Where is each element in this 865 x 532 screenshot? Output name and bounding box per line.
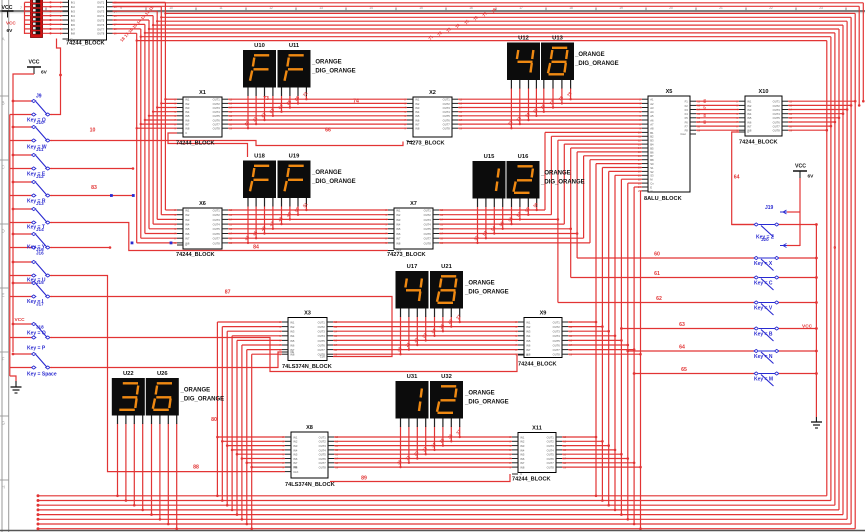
svg-text:IN6: IN6 [290, 343, 295, 347]
switch J10 left [10, 125, 52, 142]
svg-text:6V: 6V [7, 28, 14, 34]
svg-text:10: 10 [90, 128, 96, 134]
power VCC top-left 6V [2, 5, 17, 34]
svg-text:OUT8: OUT8 [773, 129, 781, 133]
svg-text:J16: J16 [36, 251, 44, 256]
svg-text:IN2: IN2 [520, 440, 525, 444]
label 62 [656, 296, 662, 302]
switch key C [571, 276, 818, 290]
svg-text:U22: U22 [123, 371, 134, 377]
power VCC left 6V [13, 60, 48, 102]
svg-text:C: C [526, 353, 528, 357]
svg-text:IN7: IN7 [185, 123, 190, 127]
svg-text:OE: OE [293, 465, 297, 469]
wire X9 outputs join risers [568, 321, 642, 356]
svg-text:OUT8: OUT8 [547, 466, 555, 470]
svg-text:OUT7: OUT7 [424, 237, 432, 241]
svg-text:IN7: IN7 [747, 125, 752, 129]
switch key X [577, 256, 818, 270]
svg-text:IN2: IN2 [185, 102, 190, 106]
svg-text:CLK: CLK [415, 140, 420, 144]
svg-text:S0: S0 [650, 162, 654, 166]
svg-text:IN1: IN1 [290, 320, 295, 324]
svg-text:H: H [2, 485, 5, 490]
ground right [811, 417, 822, 428]
svg-text:66: 66 [325, 128, 331, 134]
svg-text:IN1: IN1 [747, 100, 752, 104]
labels net numbers top middle [427, 7, 497, 41]
display U15 seven-segment [473, 154, 506, 207]
svg-text:B: B [2, 101, 5, 106]
svg-text:OUT2: OUT2 [318, 325, 326, 329]
svg-text:OUT3: OUT3 [318, 330, 326, 334]
svg-text:A8: A8 [650, 127, 654, 131]
svg-text:OUT8: OUT8 [213, 127, 221, 131]
svg-text:_DIG_ORANGE: _DIG_ORANGE [180, 397, 225, 403]
svg-text:A3: A3 [650, 106, 654, 110]
svg-text:IN3: IN3 [526, 330, 531, 334]
svg-text:0: 0 [834, 245, 837, 251]
display U32 seven-segment [430, 374, 463, 427]
buffer IC X11 74244_BLOCK [509, 425, 566, 482]
svg-text:OUT7: OUT7 [773, 125, 781, 129]
label VCC net right [802, 324, 813, 330]
wire bundle into X6 inputs [131, 210, 177, 244]
label 89 [361, 476, 367, 482]
display U31 seven-segment [396, 374, 429, 427]
svg-text:U12: U12 [518, 35, 529, 41]
svg-text:OUT8: OUT8 [443, 127, 451, 131]
svg-text:Cout: Cout [680, 132, 686, 136]
svg-text:X5: X5 [666, 89, 673, 95]
svg-text:A2: A2 [650, 102, 654, 106]
svg-text:OUT8: OUT8 [97, 32, 105, 36]
label Key = U [27, 278, 46, 286]
svg-text:88: 88 [193, 465, 199, 471]
svg-text:IN5: IN5 [747, 116, 752, 120]
svg-text:OUT8: OUT8 [213, 241, 221, 245]
svg-text:IN4: IN4 [415, 110, 420, 114]
wire key O route [51, 338, 517, 372]
svg-text:J12: J12 [36, 174, 44, 179]
labels net numbers on U10 U11 drops [243, 90, 309, 126]
svg-text:U17: U17 [407, 264, 418, 270]
wire bus X5 to X10 [696, 101, 739, 130]
svg-text:Key = X: Key = X [754, 261, 773, 267]
label 83 [91, 185, 97, 191]
svg-text:IN4: IN4 [747, 112, 752, 116]
label Key = V [754, 306, 773, 312]
switch J14 left [10, 232, 52, 249]
svg-text:OUT7: OUT7 [97, 27, 105, 31]
display U17 seven-segment [396, 264, 429, 317]
svg-text:IN6: IN6 [526, 343, 531, 347]
svg-text:_DIG_ORANGE: _DIG_ORANGE [540, 180, 585, 186]
svg-text:B6: B6 [650, 150, 654, 154]
svg-text:OUT5: OUT5 [97, 18, 105, 22]
svg-text:U21: U21 [441, 264, 452, 270]
svg-text:62: 62 [656, 296, 662, 302]
svg-text:IN5: IN5 [396, 227, 401, 231]
svg-text:IN4: IN4 [520, 448, 525, 452]
svg-text:VCC: VCC [29, 60, 40, 66]
svg-text:OUT2: OUT2 [547, 440, 555, 444]
display U22 seven-segment [112, 371, 145, 424]
svg-text:F3: F3 [685, 108, 689, 112]
svg-text:J10: J10 [36, 120, 44, 125]
svg-text:OUT3: OUT3 [213, 218, 221, 222]
switch key V [558, 301, 818, 315]
svg-text:IN3: IN3 [747, 108, 752, 112]
svg-text:E: E [2, 293, 5, 298]
svg-text:X3: X3 [304, 310, 311, 316]
wire bus X8 to X11 with U31 U32 segment drops [334, 427, 512, 469]
svg-text:OUT7: OUT7 [443, 123, 451, 127]
label 73 [263, 96, 269, 102]
svg-text:U11: U11 [289, 43, 300, 49]
label Key = Z [756, 235, 774, 243]
svg-text:X1: X1 [199, 90, 206, 96]
svg-text:_ORANGE: _ORANGE [540, 171, 571, 177]
svg-text:F2: F2 [685, 104, 689, 108]
svg-text:OUT5: OUT5 [553, 339, 561, 343]
svg-text:IN6: IN6 [185, 232, 190, 236]
svg-text:IN5: IN5 [290, 339, 295, 343]
svg-text:OUT6: OUT6 [773, 120, 781, 124]
svg-text:B7: B7 [650, 154, 654, 158]
svg-text:IN5: IN5 [415, 114, 420, 118]
svg-text:IN1: IN1 [415, 98, 420, 102]
svg-text:OUT7: OUT7 [213, 123, 221, 127]
svg-text:OUT6: OUT6 [97, 23, 105, 27]
svg-text:Key = O: Key = O [27, 331, 46, 337]
svg-text:IN7: IN7 [415, 123, 420, 127]
svg-text:X8: X8 [306, 425, 313, 431]
svg-text:89: 89 [361, 476, 367, 482]
wire DIP to U1 rows [25, 1, 63, 34]
svg-text:B3: B3 [650, 139, 654, 143]
svg-text:IN1: IN1 [185, 208, 190, 212]
label Key = E [27, 172, 46, 180]
display U12 seven-segment [507, 35, 540, 88]
labels net numbers on U15 U16 drops [473, 201, 539, 241]
wire bus top from U1 outputs with left bundle verticals [113, 2, 864, 243]
svg-text:VCC: VCC [6, 21, 16, 26]
buffer IC X10 74244_BLOCK [736, 89, 792, 146]
svg-text:S2: S2 [650, 170, 654, 174]
svg-text:IN1: IN1 [520, 435, 525, 439]
svg-text:74: 74 [353, 99, 359, 105]
svg-text:S1: S1 [650, 166, 654, 170]
svg-text:IN4: IN4 [526, 334, 531, 338]
svg-text:C: C [71, 37, 73, 41]
svg-text:Key = Space: Key = Space [27, 372, 57, 378]
svg-text:OUT1: OUT1 [443, 98, 451, 102]
label 60 [654, 252, 660, 258]
svg-text:OUT5: OUT5 [318, 339, 326, 343]
label Key = X [754, 261, 773, 267]
svg-text:OUT7: OUT7 [318, 348, 326, 352]
svg-text:IN5: IN5 [71, 18, 76, 22]
label 68 column [703, 99, 707, 124]
svg-text:X11: X11 [532, 425, 542, 431]
svg-text:_ORANGE: _ORANGE [311, 170, 342, 176]
buffer IC X1 74244_BLOCK [174, 90, 232, 147]
svg-text:OUT7: OUT7 [319, 461, 327, 465]
svg-text:IN1: IN1 [71, 1, 76, 5]
svg-text:OUT6: OUT6 [424, 232, 432, 236]
svg-text:OUT3: OUT3 [319, 444, 327, 448]
svg-text:OUT3: OUT3 [547, 444, 555, 448]
svg-text:A1: A1 [650, 98, 654, 102]
svg-text:U10: U10 [254, 43, 265, 49]
buffer IC U1 74244_BLOCK top-left [60, 0, 117, 47]
power VCC right 6V [793, 164, 814, 247]
switch J17 left [10, 322, 52, 339]
svg-text:U31: U31 [407, 374, 418, 380]
svg-text:IN2: IN2 [185, 213, 190, 217]
svg-text:IN6: IN6 [293, 457, 298, 461]
svg-text:74LS374N_BLOCK: 74LS374N_BLOCK [282, 364, 332, 370]
svg-text:A7: A7 [650, 123, 654, 127]
register IC X2 74273_BLOCK [404, 90, 462, 147]
svg-text:OUT1: OUT1 [773, 100, 781, 104]
ALU IC X5 8ALU_BLOCK [638, 89, 701, 202]
svg-text:J19: J19 [765, 205, 774, 211]
display U16 seven-segment [507, 154, 540, 207]
svg-text:X2: X2 [429, 90, 436, 96]
switch key N [626, 349, 817, 363]
svg-text:F5: F5 [685, 116, 689, 120]
svg-text:OUT5: OUT5 [547, 453, 555, 457]
svg-text:OUT4: OUT4 [553, 334, 561, 338]
ground left [11, 381, 22, 393]
svg-text:G: G [2, 421, 5, 426]
wire key P to X3 OE [51, 352, 282, 368]
svg-text:F: F [2, 357, 5, 362]
svg-text:OE: OE [290, 350, 294, 354]
svg-text:IN2: IN2 [526, 325, 531, 329]
svg-text:7: 7 [20, 6, 22, 10]
svg-text:OUT3: OUT3 [773, 108, 781, 112]
svg-text:IN5: IN5 [293, 453, 298, 457]
wire bus X1 to X2 with U10 U11 segment drops [228, 96, 407, 129]
svg-text:OUT4: OUT4 [213, 110, 221, 114]
svg-text:IN1: IN1 [185, 98, 190, 102]
label 80 near X8 bundle [211, 417, 217, 423]
svg-text:87: 87 [225, 290, 231, 296]
switch J15 left [10, 260, 52, 277]
svg-text:84: 84 [253, 245, 259, 251]
svg-text:OUT3: OUT3 [97, 10, 105, 14]
svg-text:U26: U26 [157, 371, 168, 377]
svg-text:C: C [185, 131, 187, 135]
svg-text:VCC: VCC [15, 317, 26, 323]
svg-text:B5: B5 [650, 146, 654, 150]
svg-text:Key = N: Key = N [754, 354, 773, 360]
svg-text:J15: J15 [36, 280, 44, 285]
wire X7 outputs rise to X5 lower inputs with U15 U16 drops [439, 132, 642, 244]
svg-text:X10: X10 [759, 89, 769, 95]
svg-text:VCC: VCC [795, 164, 806, 170]
svg-text:74244_BLOCK: 74244_BLOCK [739, 140, 778, 146]
svg-text:F6: F6 [685, 120, 689, 124]
label Key = N [754, 354, 773, 360]
svg-text:IN5: IN5 [526, 339, 531, 343]
svg-text:Key = C: Key = C [754, 281, 773, 287]
wire 89 below X8 [330, 474, 510, 482]
svg-text:IN7: IN7 [520, 461, 525, 465]
svg-text:OUT6: OUT6 [319, 457, 327, 461]
svg-text:74LS374N_BLOCK: 74LS374N_BLOCK [285, 482, 335, 488]
svg-text:U19: U19 [289, 153, 300, 159]
svg-text:IN3: IN3 [293, 444, 298, 448]
label Key = R [27, 199, 46, 207]
svg-text:F8: F8 [685, 129, 689, 133]
display U21 seven-segment [430, 264, 463, 317]
switch J11 left [10, 153, 52, 170]
svg-text:74244_BLOCK: 74244_BLOCK [176, 252, 215, 258]
svg-text:IN1: IN1 [526, 320, 531, 324]
label ORANGE type [464, 281, 509, 296]
svg-text:B1: B1 [650, 131, 654, 135]
label 66 [325, 128, 331, 134]
svg-text:65: 65 [681, 367, 687, 373]
svg-text:6V: 6V [41, 70, 48, 76]
svg-text:IN3: IN3 [185, 106, 190, 110]
svg-text:OUT5: OUT5 [424, 227, 432, 231]
wire bus X6 to X7 with U18 U19 segment drops [228, 207, 388, 245]
svg-text:68: 68 [703, 99, 707, 103]
buffer IC X9 74244_BLOCK [515, 310, 572, 367]
label ORANGE type [311, 60, 356, 75]
svg-text:IN6: IN6 [415, 118, 420, 122]
svg-text:OUT7: OUT7 [553, 348, 561, 352]
svg-text:J13: J13 [36, 201, 44, 206]
svg-text:Cn: Cn [650, 182, 654, 186]
wire X1 C pin route [168, 133, 248, 157]
svg-text:IN8: IN8 [396, 241, 401, 245]
svg-text:IN2: IN2 [290, 325, 295, 329]
svg-text:F7: F7 [685, 125, 689, 129]
switch J18 left [10, 352, 52, 369]
svg-text:OUT7: OUT7 [213, 237, 221, 241]
svg-text:_ORANGE: _ORANGE [574, 52, 605, 58]
label Key = I [27, 299, 44, 307]
svg-text:OUT5: OUT5 [319, 453, 327, 457]
svg-text:61: 61 [654, 271, 660, 277]
svg-text:IN2: IN2 [396, 213, 401, 217]
svg-text:IN5: IN5 [520, 453, 525, 457]
display U10 seven-segment [243, 43, 276, 96]
switch J16 left [10, 281, 52, 298]
svg-text:IN6: IN6 [747, 120, 752, 124]
svg-text:OUT3: OUT3 [213, 106, 221, 110]
svg-text:A: A [2, 37, 5, 42]
svg-text:_ORANGE: _ORANGE [464, 281, 495, 287]
label Key = W [27, 145, 47, 153]
svg-text:OUT1: OUT1 [424, 208, 432, 212]
wire VCC rail left [12, 101, 14, 352]
svg-text:C: C [2, 165, 5, 170]
svg-text:Key = V: Key = V [754, 306, 773, 312]
wire bundle feeding X3 and X8 inputs from bottom bus [216, 322, 285, 530]
display U13 seven-segment [541, 35, 574, 88]
label Key = M [754, 377, 773, 383]
labels net numbers on U12 U13 drops [507, 90, 573, 126]
svg-text:OUT4: OUT4 [213, 223, 221, 227]
svg-text:IN7: IN7 [526, 348, 531, 352]
svg-text:B8: B8 [650, 158, 654, 162]
switch J20 stub [780, 244, 800, 248]
svg-text:IN8: IN8 [71, 32, 76, 36]
label ORANGE type [574, 52, 619, 67]
svg-text:IN6: IN6 [71, 23, 76, 27]
svg-text:C: C [185, 243, 187, 247]
svg-text:OUT6: OUT6 [443, 118, 451, 122]
wire 10 key W to X2 clock [51, 141, 403, 146]
label 64 vertical [734, 175, 740, 181]
svg-text:IN4: IN4 [185, 223, 190, 227]
svg-text:OUT2: OUT2 [443, 102, 451, 106]
svg-text:OUT6: OUT6 [213, 232, 221, 236]
switch J13 left [10, 207, 52, 224]
wire X5 control risers down middle [595, 164, 642, 530]
svg-text:IN2: IN2 [747, 104, 752, 108]
svg-text:IN6: IN6 [185, 118, 190, 122]
svg-text:IN1: IN1 [293, 435, 298, 439]
wire bundle into X1 inputs [136, 98, 178, 129]
switch J19 stub [780, 210, 800, 214]
label Key = Space [27, 372, 57, 378]
label 74 [353, 99, 359, 105]
svg-text:IN2: IN2 [415, 102, 420, 106]
label 64 [679, 345, 685, 351]
wire GND rail right [815, 225, 817, 418]
latch IC X3 74LS374N_BLOCK [279, 310, 337, 370]
wire key Q to logic [51, 39, 62, 115]
svg-text:74244_BLOCK: 74244_BLOCK [176, 141, 215, 147]
svg-text:OUT1: OUT1 [318, 320, 326, 324]
svg-text:IN3: IN3 [396, 218, 401, 222]
svg-text:73: 73 [263, 96, 269, 102]
svg-text:J18: J18 [36, 325, 44, 330]
switch J9 left [10, 99, 52, 116]
switch J12 left [10, 180, 52, 197]
svg-text:OUT8: OUT8 [553, 353, 561, 357]
svg-text:X9: X9 [540, 310, 547, 316]
svg-text:F1: F1 [685, 100, 689, 104]
svg-text:A4: A4 [650, 110, 654, 114]
svg-text:Key = P: Key = P [27, 346, 46, 352]
svg-text:IN8: IN8 [185, 127, 190, 131]
svg-text:_DIG_ORANGE: _DIG_ORANGE [464, 400, 509, 406]
wire X10 outputs join right-edge bus [788, 100, 857, 132]
svg-text:OUT1: OUT1 [553, 320, 561, 324]
svg-text:67: 67 [703, 106, 707, 110]
svg-text:IN7: IN7 [293, 461, 298, 465]
svg-text:64: 64 [734, 175, 740, 181]
svg-text:J14: J14 [36, 227, 44, 232]
svg-text:IN8: IN8 [520, 466, 525, 470]
svg-text:CLK: CLK [320, 355, 325, 359]
svg-text:OUT1: OUT1 [547, 435, 555, 439]
label Key = P [27, 346, 46, 352]
svg-text:OUT2: OUT2 [773, 104, 781, 108]
label J19 [765, 205, 774, 211]
switch J21 key Z [732, 223, 818, 237]
svg-text:IN7: IN7 [71, 27, 76, 31]
